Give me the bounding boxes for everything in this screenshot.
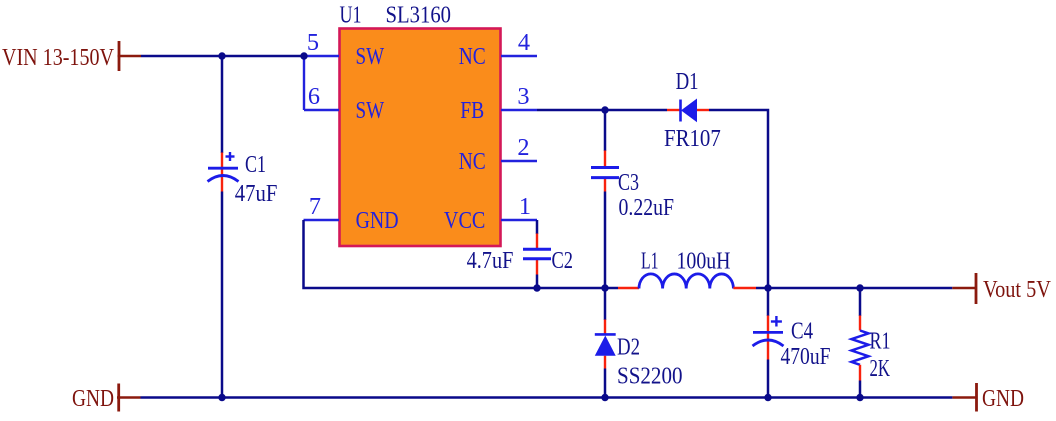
svg-text:SL3160: SL3160 <box>386 2 452 29</box>
wire FB net horizontal <box>537 109 667 112</box>
svg-text:3: 3 <box>517 83 529 110</box>
svg-text:VCC: VCC <box>444 207 486 234</box>
wire rail L1node to R1 node <box>768 287 860 290</box>
svg-text:4.7uF: 4.7uF <box>467 247 514 274</box>
svg-text:SW: SW <box>356 43 385 70</box>
svg-text:47uF: 47uF <box>235 180 278 207</box>
wire D1 to right column <box>709 110 768 288</box>
svg-text:100uH: 100uH <box>677 248 731 275</box>
capacitor C1 <box>208 151 278 207</box>
wire rail to Vout <box>860 287 952 290</box>
svg-text:7: 7 <box>309 193 321 220</box>
node L1 left junction <box>601 284 608 291</box>
svg-text:SW: SW <box>356 97 385 124</box>
svg-text:0.22uF: 0.22uF <box>619 194 675 221</box>
wire L1 to node <box>756 287 768 290</box>
pin 4 NC <box>459 29 537 70</box>
svg-text:C1: C1 <box>245 151 266 178</box>
svg-text:Vout 5V: Vout 5V <box>983 276 1051 303</box>
svg-text:C3: C3 <box>618 169 639 196</box>
wire VIN to pin5 junction <box>141 55 304 58</box>
wire bottom rail <box>141 396 953 399</box>
svg-text:NC: NC <box>459 148 486 175</box>
port Vout 5V <box>952 273 1051 304</box>
svg-text:GND: GND <box>356 207 399 234</box>
wire D2 column upper <box>604 288 607 320</box>
node bottom R1 junction <box>856 394 863 401</box>
svg-text:FB: FB <box>460 97 484 124</box>
svg-text:4: 4 <box>518 29 530 56</box>
wire C2 to rail <box>536 275 539 289</box>
svg-text:470uF: 470uF <box>781 343 831 370</box>
svg-text:GND: GND <box>982 385 1024 412</box>
svg-text:SS2200: SS2200 <box>617 363 683 390</box>
pin 3 FB <box>460 83 537 124</box>
node pin5 junction <box>300 52 307 59</box>
port GND left <box>72 384 141 413</box>
resistor R1 2K <box>852 316 891 383</box>
wire rail to L1 <box>605 287 618 290</box>
pin 2 NC <box>459 134 537 175</box>
node FB C3 junction <box>601 106 608 113</box>
svg-text:VIN 13-150V: VIN 13-150V <box>2 44 114 71</box>
port VIN 13-150V <box>2 41 141 71</box>
svg-text:6: 6 <box>308 83 320 110</box>
wire C1 column upper <box>221 56 224 153</box>
svg-text:R1: R1 <box>870 328 891 355</box>
node C2 rail junction <box>533 284 540 291</box>
diode D2 SS2200 <box>595 320 683 390</box>
svg-text:U1: U1 <box>340 2 362 29</box>
node R1 top junction <box>856 284 863 291</box>
svg-text:2: 2 <box>517 134 529 161</box>
wire C4 to bottom rail <box>767 360 770 398</box>
port GND right <box>952 383 1024 412</box>
svg-text:C4: C4 <box>791 318 813 345</box>
node bottom C1 junction <box>218 394 225 401</box>
wire R1 to bottom rail <box>859 381 862 398</box>
svg-text:C2: C2 <box>552 247 574 274</box>
node bottom D2 junction <box>601 394 608 401</box>
diode D1 FR107 <box>664 68 721 152</box>
capacitor C3 <box>591 151 674 222</box>
wire pin1 down to C2 <box>536 220 539 234</box>
wire pin5 to pin6 vertical <box>303 56 305 110</box>
pin 7 GND <box>304 193 399 234</box>
node top-rail C1 junction <box>218 52 225 59</box>
node bottom C4 junction <box>764 394 771 401</box>
wire C1 column lower <box>221 192 224 398</box>
svg-text:5: 5 <box>307 29 319 56</box>
svg-text:D2: D2 <box>617 334 640 361</box>
svg-text:FR107: FR107 <box>664 125 721 152</box>
svg-text:GND: GND <box>72 385 114 412</box>
wire C4 column upper <box>767 288 770 316</box>
svg-text:L1: L1 <box>641 248 659 275</box>
inductor L1 100uH <box>618 248 756 289</box>
pin 1 VCC <box>444 193 537 234</box>
pin 5 SW <box>304 29 384 70</box>
svg-text:2K: 2K <box>870 355 891 382</box>
capacitor C4 <box>753 316 831 371</box>
svg-text:NC: NC <box>459 43 486 70</box>
wire C3 column upper <box>604 110 607 151</box>
svg-text:1: 1 <box>519 193 531 220</box>
wire C3 to rail <box>604 192 607 289</box>
wire R1 column upper <box>859 288 862 316</box>
svg-text:D1: D1 <box>676 68 699 95</box>
pin 6 SW <box>304 83 384 124</box>
wire D2 to bottom rail <box>604 369 607 398</box>
wire GND loop pin7 <box>304 220 606 288</box>
IC U1 SL3160 body <box>340 2 501 246</box>
capacitor C2 <box>467 234 573 275</box>
node L1 right junction <box>764 284 771 291</box>
